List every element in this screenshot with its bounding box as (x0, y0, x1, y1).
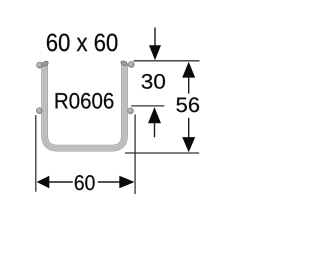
30 dim lower arrow (points up) (148, 107, 161, 137)
extension line left (60 dim) (35, 115, 37, 192)
dimension line middle (30 lower reference) (131, 105, 164, 107)
tube end cap right (120, 60, 128, 67)
label 60 x 60 (47, 34, 118, 52)
label R0606 (56, 93, 114, 109)
60 dim right arrow (points right) (98, 176, 135, 189)
dimension line bottom (56 lower reference) (125, 152, 199, 154)
56 dim lower arrow (points down) (182, 118, 195, 153)
label 60 (75, 175, 95, 190)
peg upper-left (37, 62, 43, 68)
tube end cap left (41, 60, 49, 67)
label 56 (177, 97, 200, 112)
dimension line top (30/56 upper reference) (134, 60, 200, 62)
peg lower-left (36, 108, 42, 114)
56 dim upper arrow (points up) (182, 62, 195, 94)
30 dim upper arrow (points down) (149, 28, 161, 61)
peg lower-right (128, 108, 134, 114)
label 30 (142, 74, 165, 89)
peg upper-right (128, 61, 134, 67)
tube U-profile R0606 (45, 64, 125, 148)
60 dim left arrow (points left) (37, 176, 73, 188)
extension line right (60 dim) (134, 115, 136, 195)
